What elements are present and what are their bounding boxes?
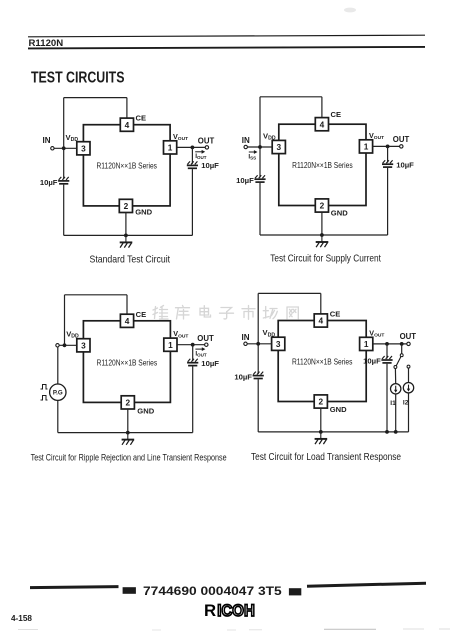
- svg-text:OUT: OUT: [198, 137, 215, 146]
- label VOUT: [369, 131, 384, 141]
- wire CE top: [258, 293, 321, 314]
- IC U3 body: [83, 321, 170, 403]
- ground: [316, 235, 329, 247]
- circuit 4: Test Circuit for Load Transient Response: [234, 293, 416, 462]
- svg-text:4: 4: [125, 120, 130, 130]
- wire contact to I2: [408, 368, 410, 382]
- ground: [120, 235, 133, 247]
- label VOUT: [369, 328, 384, 338]
- svg-text:ICOH: ICOH: [217, 601, 255, 620]
- pin 1 VOUT: [360, 337, 373, 350]
- IC U4 body: [278, 321, 366, 402]
- IC U2 body: [279, 124, 366, 205]
- wire ground rail: [260, 234, 388, 236]
- pin 4 CE: [120, 118, 133, 131]
- wire ground rail: [58, 432, 193, 434]
- label VOUT: [173, 132, 188, 142]
- label IN: [242, 136, 250, 145]
- label 10uF output: [396, 161, 414, 170]
- label IN: [242, 333, 250, 342]
- label 10uF output: [201, 161, 219, 170]
- IC U4 label R1120Nxx1B Series: [292, 357, 353, 367]
- svg-text:R1120N××1B Series: R1120N××1B Series: [97, 357, 158, 367]
- caption load transient: [251, 452, 401, 463]
- junction node VOUT: [191, 146, 195, 150]
- current source I1: [391, 384, 401, 394]
- pin 4 CE: [315, 118, 328, 131]
- svg-text:IN: IN: [242, 136, 250, 145]
- caption supply current: [270, 253, 381, 264]
- label CE: [330, 310, 341, 319]
- svg-text:R1120N××1B Series: R1120N××1B Series: [292, 357, 353, 367]
- label VDD: [66, 329, 79, 339]
- svg-text:Test Circuit for Load Transien: Test Circuit for Load Transient Response: [251, 452, 401, 463]
- ground: [122, 433, 135, 445]
- terminal IN: [244, 342, 247, 345]
- svg-text:R1120N: R1120N: [29, 38, 64, 49]
- wire pin 2 to rail: [321, 212, 323, 235]
- svg-text:CE: CE: [136, 114, 147, 123]
- wire IN to pin 3: [247, 146, 272, 148]
- pin 3 VDD: [272, 337, 285, 350]
- svg-text:R1120N××1B Series: R1120N××1B Series: [97, 161, 158, 171]
- wire ground rail: [64, 234, 193, 236]
- svg-text:TEST CIRCUITS: TEST CIRCUITS: [31, 70, 125, 87]
- capacitor COUT 10uF: [381, 356, 392, 363]
- svg-text:2: 2: [318, 397, 323, 407]
- svg-text:10µF: 10µF: [363, 356, 381, 365]
- pin 2 GND: [315, 199, 328, 212]
- pin 3 VDD: [272, 140, 285, 153]
- wire pin 2 to rail: [127, 409, 129, 433]
- terminal OUT: [205, 343, 208, 346]
- label OUT: [197, 334, 214, 343]
- label IN: [43, 136, 51, 145]
- label GND: [137, 406, 154, 415]
- terminal OUT: [205, 146, 208, 149]
- svg-text:CE: CE: [330, 310, 341, 319]
- RICOH logo: [204, 601, 255, 620]
- wire terminal to PG: [57, 347, 59, 384]
- svg-text:I2: I2: [403, 400, 409, 407]
- wire VDD left vertical upper: [63, 98, 65, 180]
- svg-text:2: 2: [320, 201, 325, 211]
- pin 3 VDD: [77, 339, 90, 352]
- IC U3 label R1120Nxx1B Series: [97, 357, 158, 367]
- switch pole contact: [400, 354, 403, 357]
- wire input cap to rail: [259, 183, 261, 235]
- label VOUT: [173, 329, 188, 339]
- pulse generator PG: [50, 384, 66, 400]
- svg-text:1: 1: [364, 339, 369, 349]
- wire VOUT to OUT: [177, 344, 205, 346]
- svg-text:CE: CE: [136, 310, 147, 319]
- svg-text:Test Circuit for Ripple Reject: Test Circuit for Ripple Rejection and Li…: [31, 453, 227, 463]
- wire output cap to rail: [192, 366, 194, 432]
- label VDD: [263, 131, 276, 141]
- wire contact to I1: [394, 369, 396, 384]
- junction node cap branch: [385, 342, 389, 346]
- label CE: [136, 310, 147, 319]
- svg-text:4: 4: [320, 119, 325, 129]
- pin 3 VDD: [77, 142, 90, 155]
- arrow ISS: [249, 150, 258, 154]
- pin 1 VOUT: [359, 140, 372, 153]
- wire PG to rail: [57, 400, 59, 432]
- header rule thin: [28, 35, 425, 37]
- barcode block right: [289, 588, 301, 595]
- junction node switch branch: [400, 342, 404, 346]
- terminal IN: [244, 145, 247, 148]
- junction node VOUT: [191, 343, 195, 347]
- circuit 1: Standard Test Circuit: [40, 98, 219, 266]
- wire CE top: [260, 97, 322, 118]
- junction node rail: [320, 233, 324, 237]
- svg-text:Test Circuit for Supply Curren: Test Circuit for Supply Current: [270, 253, 381, 264]
- terminal IN: [51, 147, 54, 150]
- svg-text:3: 3: [81, 143, 86, 153]
- wire pin 2 to rail: [125, 213, 127, 236]
- current source I2: [403, 383, 413, 393]
- pulse waveform symbol lower: [41, 396, 48, 401]
- wire VOUT to OUT: [373, 145, 400, 147]
- svg-text:10µF: 10µF: [40, 178, 58, 187]
- junction node VDD: [258, 145, 262, 149]
- svg-text:4-158: 4-158: [11, 614, 32, 623]
- junction node rail: [124, 234, 128, 238]
- junction node VDD: [256, 342, 260, 346]
- IC U1 body: [83, 125, 170, 206]
- wire ground rail: [258, 431, 408, 433]
- terminal OUT: [400, 145, 403, 148]
- wire I1 to rail: [395, 394, 397, 432]
- pin 2 GND: [119, 199, 132, 212]
- svg-text:1: 1: [168, 143, 173, 153]
- label 10uF output: [201, 359, 219, 368]
- arrow IOUT: [195, 150, 205, 154]
- svg-text:4: 4: [125, 316, 130, 326]
- label I2: [403, 400, 409, 407]
- label 10uF input: [234, 373, 252, 382]
- svg-text:10µF: 10µF: [236, 176, 254, 185]
- junction node rail: [126, 431, 130, 435]
- circuit 2: Test Circuit for Supply Current: [236, 97, 414, 264]
- wire output cap to rail: [386, 364, 388, 432]
- label CE: [136, 114, 147, 123]
- svg-text:10µF: 10µF: [396, 161, 414, 170]
- ground: [315, 432, 328, 444]
- svg-text:IN: IN: [43, 136, 51, 145]
- capacitor CIN 10uF: [254, 175, 265, 182]
- svg-text:IN: IN: [242, 333, 250, 342]
- junction node rail pin2: [319, 430, 323, 434]
- wire VDD left vertical upper: [259, 97, 261, 178]
- wire VOUT to OUT: [177, 146, 206, 148]
- junction node VDD: [63, 343, 67, 347]
- terminal OUT: [407, 342, 410, 345]
- capacitor COUT 10uF: [382, 160, 393, 167]
- wire IN to pin 3: [54, 147, 77, 149]
- svg-text:3: 3: [81, 340, 86, 350]
- page heading TEST CIRCUITS: [31, 70, 125, 87]
- label OUT: [393, 135, 410, 144]
- svg-text:OUT: OUT: [197, 334, 214, 343]
- wire output cap to rail: [387, 168, 389, 235]
- scan artifacts bottom: [18, 629, 450, 630]
- wire output cap upper: [192, 345, 194, 361]
- label CE: [331, 110, 342, 119]
- svg-text:GND: GND: [137, 406, 154, 415]
- capacitor CIN 10uF: [253, 372, 264, 379]
- wire terminal to pin 3: [59, 344, 77, 346]
- svg-text:10µF: 10µF: [234, 373, 252, 382]
- pulse waveform symbol upper: [41, 385, 48, 390]
- label 10uF input: [236, 176, 254, 185]
- label 10uF output: [363, 356, 381, 365]
- wire input cap to rail: [63, 185, 65, 236]
- svg-text:R1120N××1B Series: R1120N××1B Series: [292, 160, 353, 170]
- IC U2 label R1120Nxx1B Series: [292, 160, 353, 170]
- label ISS: [248, 154, 256, 161]
- junction node rail cap: [385, 430, 389, 434]
- svg-text:GND: GND: [330, 405, 347, 414]
- junction node VOUT: [386, 145, 390, 149]
- wire left vertical to node: [64, 295, 66, 346]
- barcode rule left: [30, 587, 119, 588]
- pin 1 VOUT: [164, 338, 177, 351]
- wire VOUT to OUT: [373, 343, 407, 345]
- svg-text:P.G: P.G: [53, 390, 63, 397]
- svg-text:GND: GND: [135, 208, 152, 217]
- wire output cap to rail: [191, 169, 193, 235]
- svg-text:GND: GND: [331, 208, 348, 217]
- pin 2 GND: [314, 395, 327, 408]
- svg-text:CE: CE: [331, 110, 342, 119]
- capacitor COUT 10uF: [187, 359, 198, 366]
- label I1: [390, 400, 396, 407]
- pin 1 VOUT: [164, 141, 177, 154]
- switch throw contact I1: [394, 366, 397, 369]
- junction node rail I1: [394, 430, 398, 434]
- wire IN to pin 3: [247, 343, 271, 345]
- label GND: [135, 208, 152, 217]
- circuit 3: Test Circuit for Ripple Rejection and Line Transient Response: [31, 295, 227, 463]
- barcode block left: [123, 587, 136, 594]
- svg-text:10µF: 10µF: [201, 161, 219, 170]
- pin 4 CE: [120, 314, 133, 327]
- IC U1 label R1120Nxx1B Series: [97, 161, 158, 171]
- pin 2 GND: [121, 396, 134, 409]
- wire CE top: [64, 98, 127, 119]
- wire I2 to rail corner: [408, 393, 410, 432]
- pin 4 CE: [314, 314, 327, 327]
- barcode text: [143, 584, 282, 598]
- wire VDD left vertical upper: [257, 293, 259, 374]
- svg-text:OUT: OUT: [393, 135, 410, 144]
- label IOUT: [195, 350, 207, 357]
- svg-text:3: 3: [276, 142, 281, 152]
- caption standard test circuit: [90, 254, 171, 265]
- svg-text:7744690 0004047 3T5: 7744690 0004047 3T5: [143, 584, 282, 598]
- svg-text:2: 2: [125, 398, 130, 408]
- svg-text:1: 1: [364, 142, 369, 152]
- wire switch pole stub: [401, 344, 403, 354]
- svg-text:3: 3: [276, 339, 281, 349]
- svg-text:1: 1: [168, 340, 173, 350]
- label OUT: [400, 332, 417, 341]
- wire pin 2 to rail: [320, 408, 322, 432]
- capacitor CIN 10uF: [58, 177, 69, 184]
- label VDD: [263, 328, 276, 338]
- label OUT: [198, 137, 215, 146]
- label GND: [331, 208, 348, 217]
- capacitor COUT 10uF: [187, 161, 198, 168]
- wire input cap to rail: [257, 379, 259, 432]
- header rule thick: [28, 47, 425, 49]
- page number: [11, 614, 32, 623]
- junction node VDD: [62, 146, 66, 150]
- scan smudge: [344, 8, 356, 13]
- header title R1120N: [29, 38, 64, 49]
- wire output cap upper: [387, 146, 389, 162]
- svg-text:2: 2: [124, 201, 129, 211]
- svg-text:R: R: [204, 601, 216, 620]
- svg-text:OUT: OUT: [400, 332, 417, 341]
- caption ripple rejection: [31, 453, 227, 463]
- wire output cap upper: [386, 344, 388, 359]
- svg-text:10µF: 10µF: [201, 359, 219, 368]
- svg-text:Standard Test Circuit: Standard Test Circuit: [90, 254, 171, 265]
- switch throw contact I2: [407, 365, 410, 368]
- label GND: [330, 405, 347, 414]
- barcode rule right: [307, 583, 426, 586]
- wire CE top: [65, 295, 128, 314]
- arrow IOUT: [195, 347, 205, 351]
- watermark: [153, 306, 298, 320]
- wire output cap upper: [191, 147, 193, 163]
- label VDD: [66, 133, 79, 143]
- svg-text:4: 4: [318, 316, 323, 326]
- terminal VDD node: [56, 344, 59, 347]
- label 10uF input: [40, 178, 58, 187]
- switch arm: [396, 357, 401, 366]
- label IOUT: [195, 153, 207, 160]
